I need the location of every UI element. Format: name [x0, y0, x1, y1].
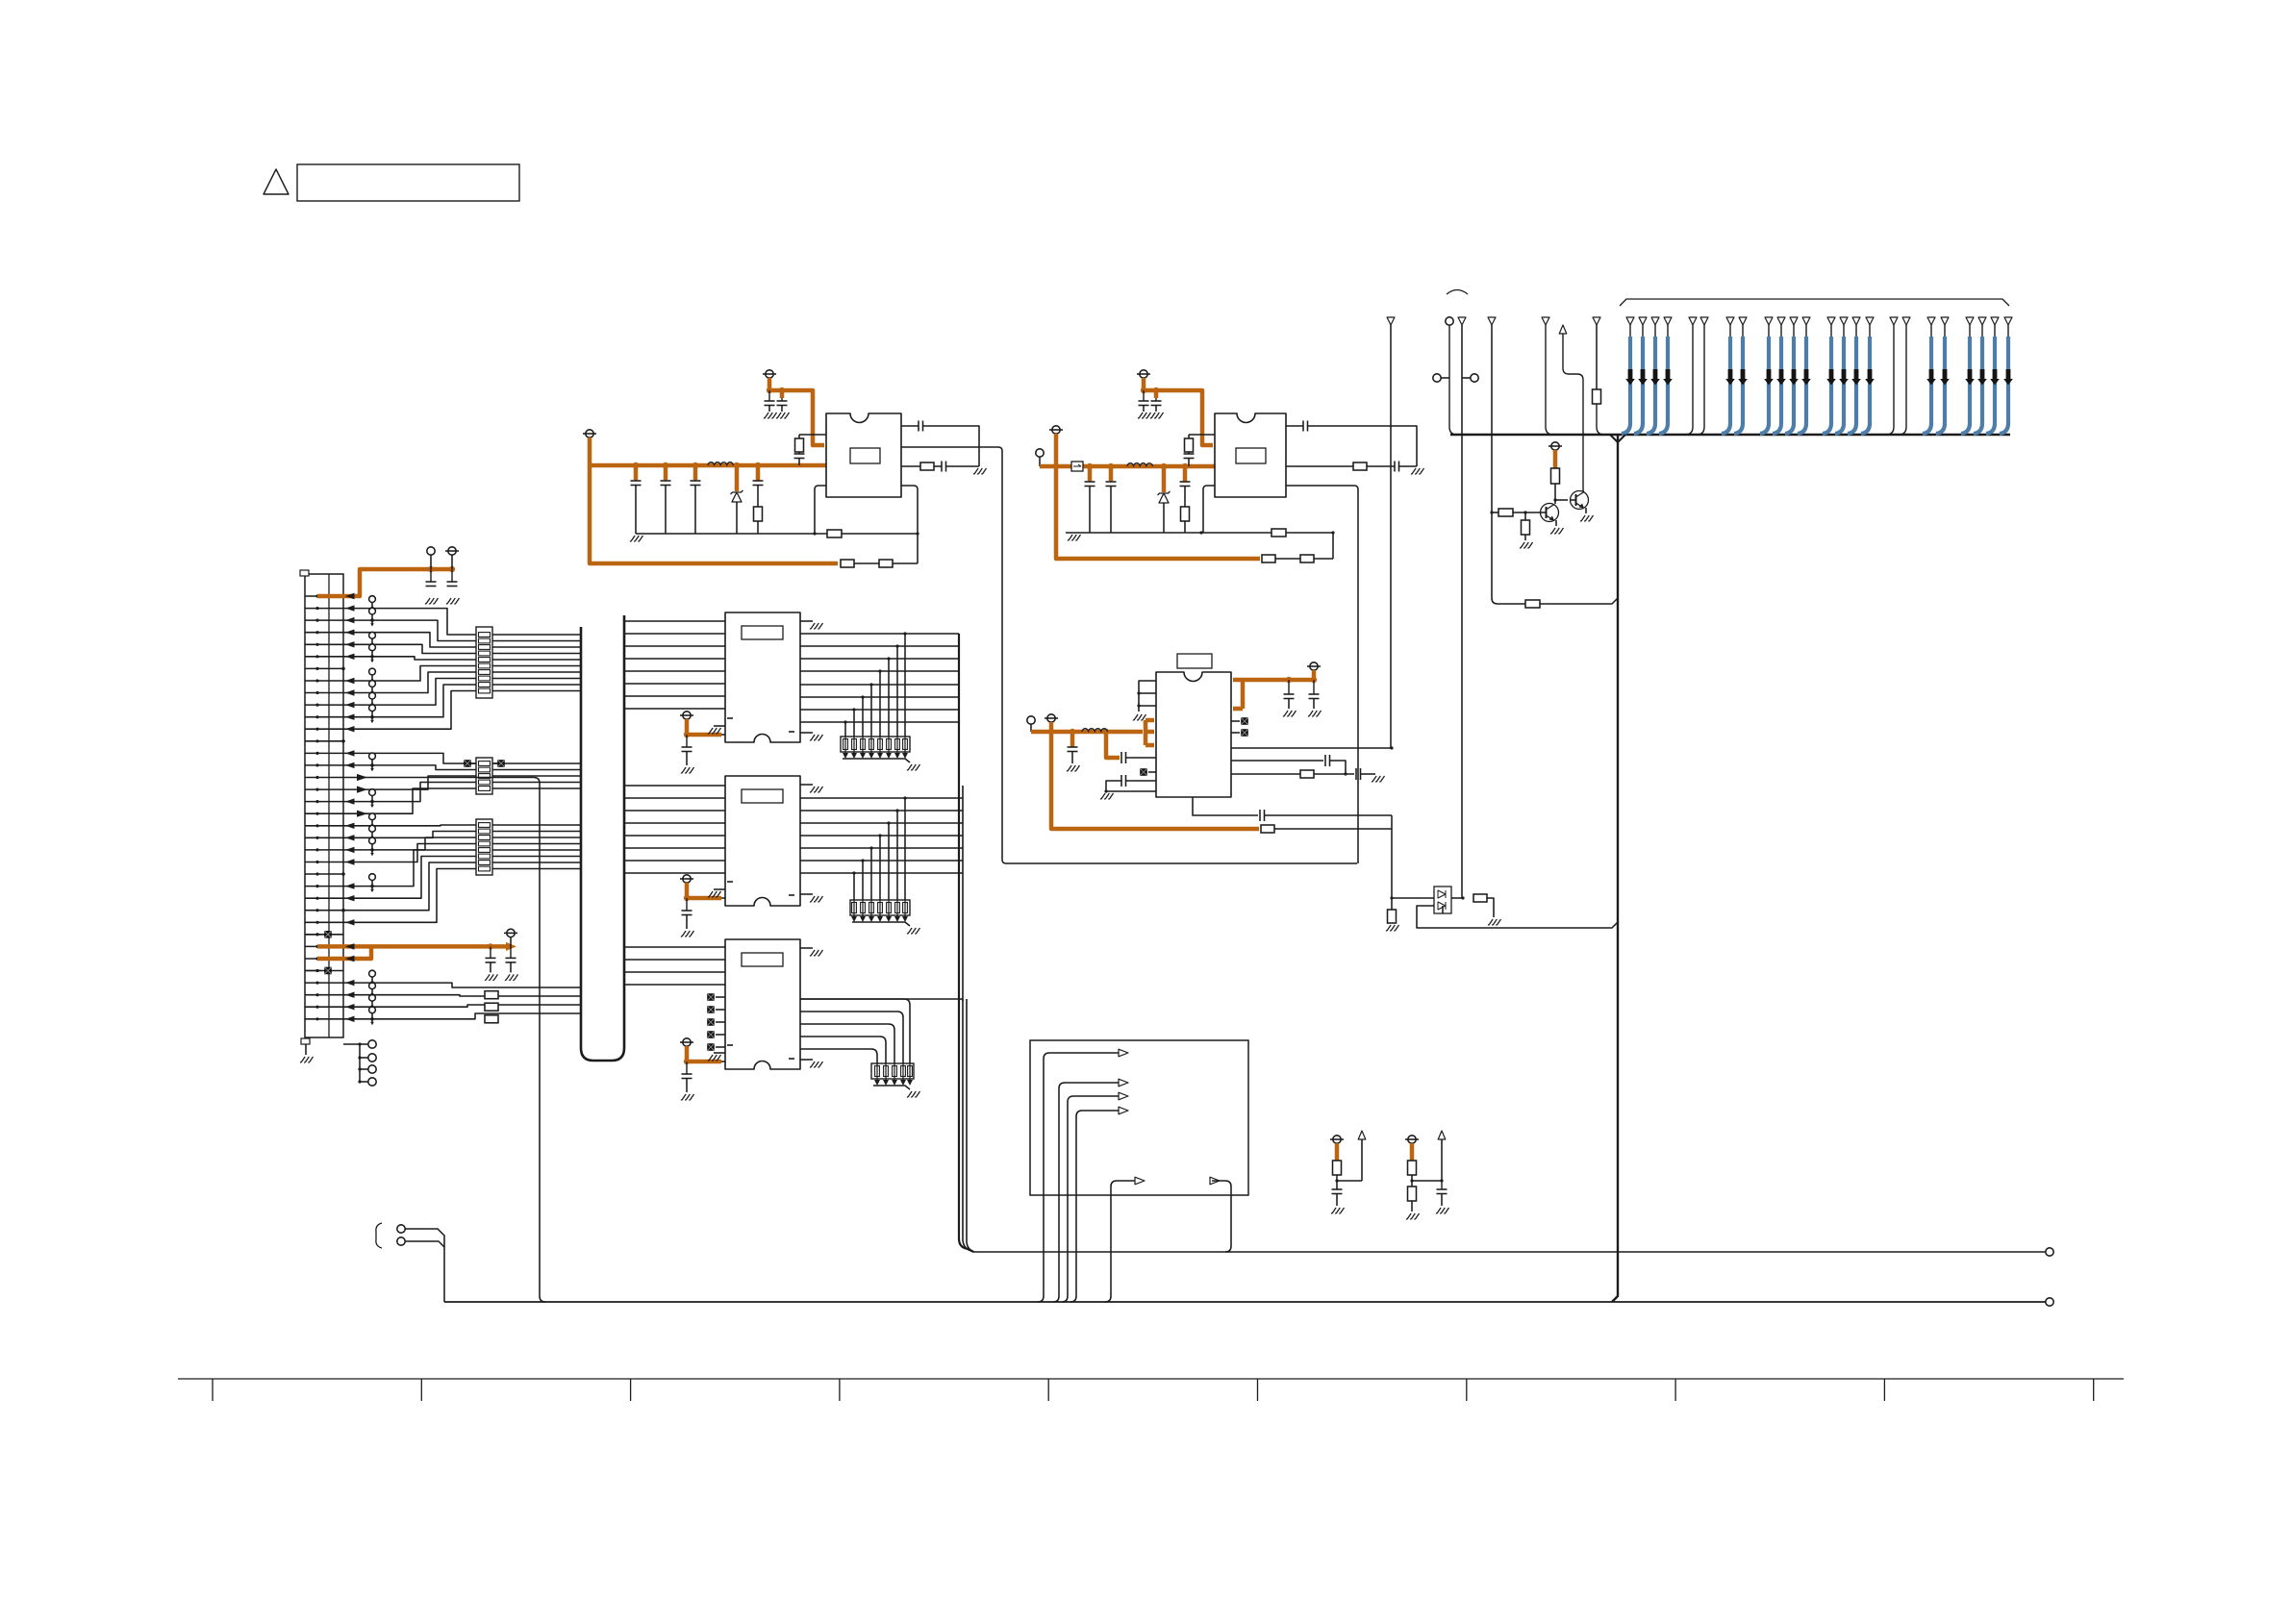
- connector pin: [1890, 317, 1898, 325]
- bus bundle vertical: [959, 634, 973, 1252]
- connector CN1 pin 17: [305, 788, 343, 790]
- wire H-A: [973, 1251, 2046, 1253]
- wire orange: [634, 465, 639, 480]
- wire blue arrow: [1980, 369, 1985, 380]
- connector CN1 pin 8: [305, 680, 343, 682]
- wire orange PSU1 return: [590, 465, 838, 563]
- junction: [1087, 463, 1093, 469]
- wire orange: [1109, 466, 1114, 481]
- connector CN1 pin 26: [305, 897, 343, 899]
- buffer IC SD1: [725, 612, 800, 742]
- junction: [1335, 1179, 1338, 1182]
- ground: [681, 931, 694, 937]
- wire: [721, 897, 725, 899]
- wire: [904, 634, 906, 737]
- wire: [800, 633, 959, 635]
- capacitor: [1089, 481, 1091, 482]
- wire: [1231, 773, 1300, 775]
- connector CN1 pin 30: [305, 945, 343, 947]
- ground: [1372, 776, 1385, 782]
- ground: [1067, 765, 1080, 771]
- warning note box: [297, 164, 519, 201]
- junction: [663, 462, 668, 468]
- wire: [1597, 404, 1604, 435]
- wire: [800, 999, 963, 1001]
- junction: [341, 667, 345, 671]
- wire: [624, 797, 725, 799]
- IC SD2 label box: [742, 789, 783, 803]
- wire: [1540, 598, 1618, 604]
- wire: [624, 971, 725, 973]
- resistor: [1524, 512, 1526, 520]
- wire: [800, 1037, 886, 1063]
- ferrite bead: [1140, 768, 1147, 776]
- wire: [624, 620, 725, 622]
- wire blue: [1843, 325, 1845, 338]
- test point: [369, 753, 376, 760]
- junction: [684, 1059, 690, 1064]
- ground: [446, 598, 460, 604]
- IC2 label box: [1236, 448, 1266, 463]
- wire: [902, 1063, 904, 1080]
- capacitor: [941, 462, 943, 472]
- wire: [343, 837, 581, 850]
- junction: [341, 739, 345, 743]
- wire: [1583, 490, 1584, 492]
- capacitor: [1394, 462, 1396, 472]
- wire orange: [1183, 466, 1188, 482]
- power terminal: [683, 1038, 691, 1046]
- wire: [879, 737, 881, 753]
- ground: [907, 1091, 920, 1097]
- wire: [1139, 681, 1156, 712]
- open arrow: [1210, 1177, 1220, 1185]
- connector pin: [1966, 317, 1974, 325]
- capacitor: [1324, 755, 1326, 766]
- wire: [853, 900, 855, 916]
- bus bundle vertical: [963, 786, 971, 1251]
- wire: [959, 822, 963, 824]
- arrow into CN1: [345, 956, 355, 962]
- ground: [1411, 468, 1424, 474]
- capacitor: [1120, 752, 1122, 763]
- small brace: [1447, 290, 1468, 295]
- wire: [1111, 1181, 1135, 1187]
- brace: [376, 1223, 382, 1248]
- wire orange: [693, 465, 698, 480]
- junction: [488, 943, 493, 949]
- connector pin: [1664, 317, 1672, 325]
- wire: [1555, 520, 1557, 526]
- wire: [343, 862, 581, 911]
- orange arrow: [506, 942, 516, 951]
- wire: [343, 679, 581, 706]
- wire: [888, 823, 890, 900]
- wire: [343, 824, 581, 827]
- wire blue arrow: [1792, 369, 1797, 380]
- wire: [343, 685, 581, 717]
- resistor: [879, 560, 893, 567]
- ground: [1138, 412, 1151, 418]
- connector pin: [1651, 317, 1659, 325]
- wire: [893, 562, 918, 564]
- wire: [1193, 797, 1258, 815]
- capacitor: [798, 452, 800, 454]
- wire: [343, 666, 581, 682]
- wire: [862, 900, 864, 916]
- wire: [721, 1061, 725, 1062]
- arrow into CN1: [345, 956, 355, 962]
- test point: [369, 994, 376, 1001]
- wire: [800, 860, 959, 862]
- arrow into CN1: [345, 1004, 355, 1010]
- resistor: [1333, 1161, 1342, 1175]
- resistor: [1300, 555, 1314, 562]
- connector pin: [1777, 317, 1785, 325]
- ground: [425, 598, 439, 604]
- wire: [959, 835, 963, 837]
- wire: [800, 847, 959, 849]
- wire: [800, 1012, 903, 1063]
- terminal: [397, 1225, 405, 1233]
- junction: [843, 720, 846, 723]
- wire: [624, 645, 725, 647]
- connector pin: [1902, 317, 1910, 325]
- connector CN1 pin 10: [305, 704, 343, 706]
- junction: [887, 657, 890, 660]
- ferrite bead on bus: [1071, 462, 1083, 471]
- wire blue arrow: [1641, 369, 1646, 380]
- connector pin: [1866, 317, 1874, 325]
- connector pin: [2004, 317, 2012, 325]
- resistor: [1262, 555, 1275, 562]
- arrow out of CN1: [357, 811, 367, 817]
- wire: [901, 425, 919, 427]
- connector CN1 pin 36: [305, 1018, 343, 1020]
- wire: [1275, 558, 1300, 560]
- junction: [869, 683, 872, 686]
- jumper: [1433, 374, 1441, 382]
- ruler line: [178, 1378, 2124, 1380]
- junction: [684, 895, 690, 901]
- power terminal: [586, 430, 593, 437]
- resistor: [1593, 389, 1601, 404]
- wire: [1049, 1052, 1119, 1054]
- open arrow: [1119, 1092, 1128, 1100]
- wire: [870, 737, 872, 753]
- wire: [343, 1013, 581, 1019]
- arrow into CN1: [345, 702, 355, 708]
- ferrite bead: [1231, 732, 1240, 734]
- capacitor: [1110, 481, 1112, 482]
- wire: [870, 685, 872, 737]
- wire: [901, 486, 918, 563]
- transistor Q2: [1571, 491, 1589, 510]
- wire: [879, 900, 881, 916]
- ground: [1068, 535, 1081, 540]
- connector pin: [1639, 317, 1647, 325]
- ground: [800, 893, 813, 895]
- capacitor: [686, 1062, 688, 1074]
- connector CN1 pin 25: [305, 886, 343, 887]
- junction: [428, 566, 434, 572]
- wire: [1585, 508, 1587, 513]
- wire orange: [780, 390, 785, 398]
- wire blue: [1930, 325, 1932, 338]
- wire: [800, 872, 959, 874]
- wire VSUS orange: [317, 944, 511, 949]
- ferrite bead array FA1: [476, 627, 492, 698]
- wire blue arrow: [1829, 369, 1834, 380]
- junction: [1461, 896, 1464, 899]
- wire blue arrow: [1868, 369, 1873, 380]
- test point: [369, 692, 376, 699]
- ferrite bead: [464, 760, 471, 767]
- wire: [624, 835, 725, 837]
- inductor: [1127, 463, 1152, 466]
- junction: [1137, 691, 1140, 694]
- wire: [343, 832, 581, 838]
- IC SD3 label box: [742, 953, 783, 966]
- wire: [1203, 486, 1215, 533]
- arrow into CN1: [345, 605, 355, 611]
- capacitor: [1143, 390, 1145, 401]
- wire: [1212, 1181, 1231, 1187]
- wire: [1126, 757, 1157, 759]
- wire: [844, 737, 846, 753]
- connector pin: [1542, 317, 1549, 325]
- wire: [904, 798, 906, 900]
- wire: [904, 900, 906, 916]
- capacitor: [1120, 775, 1122, 787]
- connector CN1 pin 16: [305, 777, 343, 779]
- wire: [896, 737, 898, 753]
- connector CN1 pin 18: [305, 801, 343, 803]
- capacitor: [1288, 680, 1290, 694]
- warning triangle: [264, 169, 289, 194]
- wire blue: [1793, 325, 1795, 338]
- junction: [903, 796, 906, 799]
- connector CN1 pin 4: [305, 632, 343, 634]
- arrow into CN1: [345, 630, 355, 636]
- connector CN1 pin 28: [305, 921, 343, 923]
- wire: [1073, 1095, 1119, 1097]
- wire blue: [1780, 325, 1782, 338]
- arrow into CN1: [345, 835, 355, 840]
- bus hairpin: [581, 615, 624, 1061]
- wire: [1231, 760, 1323, 762]
- connector CN1 pin 24: [305, 873, 343, 875]
- arrow into CN1: [345, 593, 355, 599]
- connector pin: [1700, 317, 1708, 325]
- wire: [624, 959, 725, 961]
- ferrite bead: [707, 1018, 715, 1026]
- ground: [1436, 1208, 1449, 1213]
- wire: [721, 734, 725, 736]
- wire: [800, 835, 959, 837]
- terminal: [427, 547, 435, 555]
- junction: [1182, 463, 1188, 469]
- resistor: [920, 462, 934, 470]
- wire orange: [756, 465, 761, 481]
- capacitor: [1068, 746, 1078, 748]
- arrow into CN1: [345, 859, 355, 864]
- junction: [1053, 463, 1059, 469]
- junction: [916, 532, 919, 535]
- wire: [959, 860, 963, 862]
- test point: [369, 970, 376, 977]
- wire: [1274, 828, 1392, 830]
- test point: [369, 837, 376, 844]
- connector CN1 pin 12: [305, 728, 343, 730]
- wire: [471, 762, 476, 764]
- junction: [852, 871, 855, 874]
- arrow into CN1: [345, 678, 355, 684]
- wire: [1065, 1082, 1119, 1084]
- connector pin: [1852, 317, 1860, 325]
- junction: [1440, 1179, 1443, 1182]
- wire: [854, 562, 879, 564]
- wire: [624, 872, 725, 874]
- buffer IC SD3: [725, 939, 800, 1069]
- wire: [343, 788, 581, 813]
- open arrow: [1119, 1107, 1128, 1114]
- wire orange PSU2 return: [1056, 466, 1260, 559]
- ferrite bead: [305, 970, 321, 972]
- wire: [1361, 773, 1376, 775]
- test point: [369, 705, 376, 712]
- power terminal: [766, 370, 773, 378]
- ferrite bead array FA2: [476, 758, 492, 794]
- junction: [1553, 498, 1556, 501]
- connector CN1 pin 22: [305, 849, 343, 851]
- capacitor: [753, 480, 764, 482]
- ground: [776, 412, 790, 418]
- wire: [1265, 814, 1393, 816]
- arrow into CN1: [345, 1016, 355, 1022]
- power terminal: [1551, 442, 1559, 450]
- ground: [1386, 925, 1399, 931]
- wire: [894, 1063, 895, 1080]
- capacitor: [1188, 452, 1190, 454]
- wire lower run: [1492, 512, 1525, 604]
- test point: [368, 1078, 376, 1086]
- junction: [755, 462, 761, 468]
- capacitor: [918, 421, 919, 432]
- connector CN1 pin 33: [305, 982, 343, 984]
- junction: [1390, 896, 1393, 899]
- ground: [907, 928, 920, 934]
- arrow into CN1: [345, 654, 355, 660]
- open arrow: [1135, 1177, 1145, 1185]
- connector pin: [1739, 317, 1747, 325]
- wire: [343, 633, 581, 647]
- connector pin: [1689, 317, 1697, 325]
- pin 1 mark: [727, 717, 733, 719]
- capacitor: [665, 480, 667, 481]
- resistor array RA3: [871, 1063, 914, 1079]
- arrow into CN1: [345, 750, 355, 756]
- ground: [714, 725, 725, 727]
- ground: [630, 536, 643, 541]
- wire orange: [685, 883, 721, 898]
- terminal: [1446, 317, 1453, 325]
- wire enclosure: [901, 447, 1357, 863]
- wire orange PSU2 bus: [1040, 434, 1215, 466]
- wire: [1330, 761, 1347, 774]
- power terminal: [448, 547, 456, 555]
- junction: [1344, 772, 1347, 775]
- wire: [1106, 781, 1156, 791]
- connector CN1 pin 2: [305, 608, 343, 610]
- wire orange: [1106, 732, 1120, 758]
- junction: [684, 732, 690, 737]
- wire: [1392, 897, 1434, 899]
- resistor: [1492, 512, 1498, 513]
- connector CN1 pin 11: [305, 716, 343, 718]
- wire orange: [1410, 1143, 1415, 1161]
- wire: [800, 684, 959, 686]
- connector pin: [1726, 317, 1734, 325]
- junction: [895, 809, 898, 812]
- capacitor: [510, 946, 512, 958]
- connector CN1 body: [305, 574, 343, 1037]
- ground: [800, 620, 813, 622]
- wire: [1286, 425, 1303, 427]
- wire blue: [2007, 325, 2009, 338]
- resistor: [827, 530, 842, 537]
- wire orange: [735, 465, 740, 491]
- wire: [815, 486, 826, 534]
- wire orange: [1335, 1143, 1340, 1161]
- capacitor: [490, 946, 491, 958]
- wire: [1554, 484, 1556, 504]
- bracket: [1620, 299, 2009, 306]
- arrow out of CN1: [357, 774, 367, 781]
- wire: [885, 1063, 887, 1080]
- open arrow: [1119, 1079, 1128, 1087]
- wire: [879, 671, 881, 737]
- junction: [903, 632, 906, 635]
- test point: [369, 644, 376, 651]
- resistor: [485, 1003, 498, 1011]
- up arrow line: [1559, 325, 1567, 334]
- capacitor: [1155, 398, 1157, 401]
- wire: [1231, 747, 1392, 749]
- test point: [369, 608, 376, 614]
- junction: [1523, 511, 1526, 513]
- resistor: [1353, 462, 1367, 470]
- wire: [343, 995, 581, 996]
- wire: [853, 737, 855, 753]
- wire: [343, 1005, 581, 1007]
- IC SD1 label box: [742, 626, 783, 639]
- ground: [973, 468, 987, 474]
- test point: [369, 813, 376, 820]
- wire: [959, 847, 963, 849]
- junction: [1390, 746, 1393, 749]
- wire: [862, 737, 864, 753]
- wire: [343, 609, 581, 635]
- wire: [862, 697, 864, 737]
- resistor: [754, 507, 763, 521]
- capacitor: [1259, 810, 1261, 821]
- capacitor: [451, 569, 453, 582]
- ground rail: [1066, 532, 1333, 534]
- wire: [1314, 773, 1354, 775]
- wire blue: [1805, 325, 1807, 338]
- terminal: [1036, 449, 1044, 457]
